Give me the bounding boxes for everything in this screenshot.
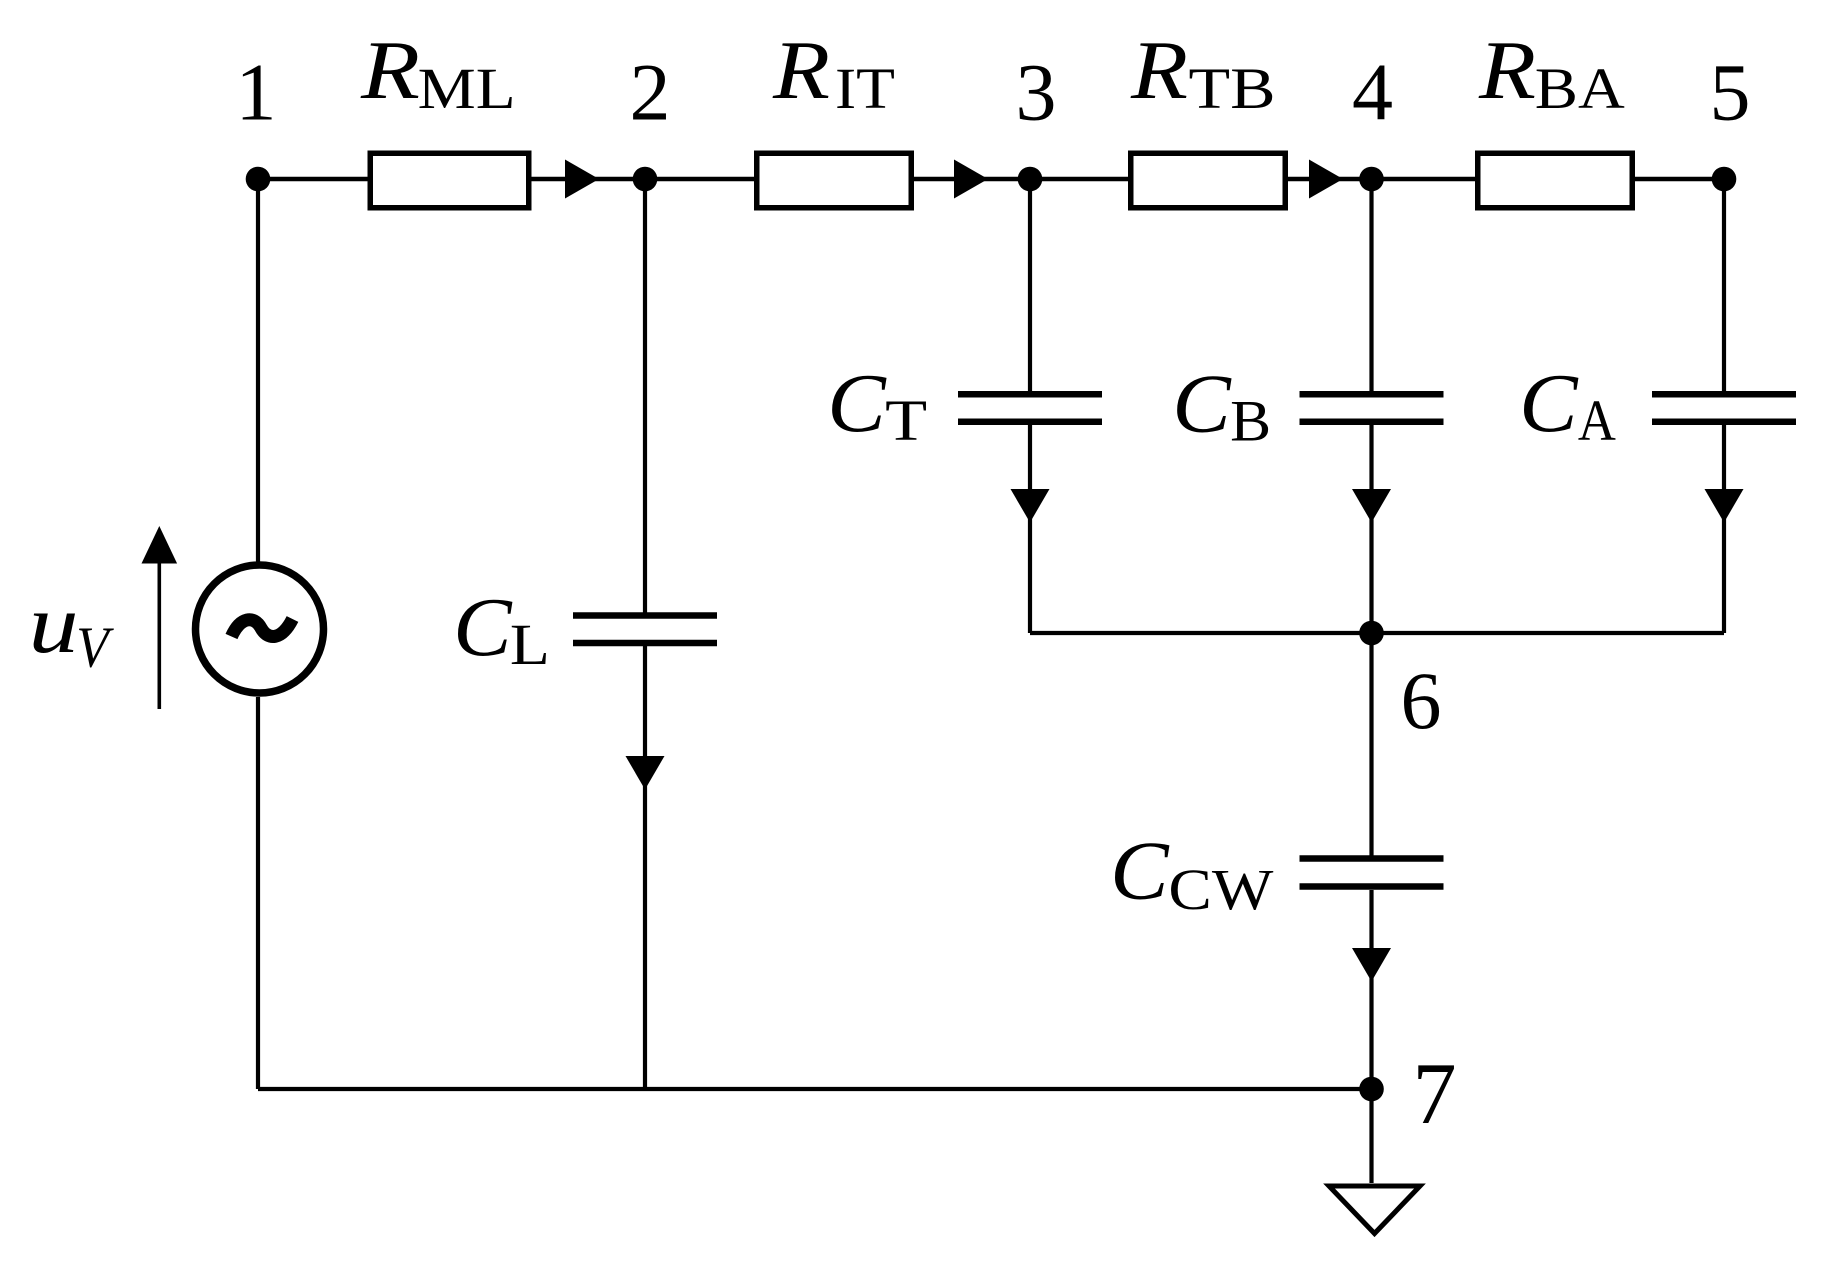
wire CCW to node7 (1369, 890, 1373, 1089)
capacitor C_CW bottom plate (1300, 883, 1444, 890)
svg-text:6: 6 (1401, 655, 1442, 746)
capacitor C_CW top plate (1300, 855, 1444, 862)
svg-text:1: 1 (236, 47, 277, 138)
resistor R_TB (1131, 153, 1286, 208)
node 7 (1359, 1077, 1384, 1102)
capacitor C_L top plate (573, 612, 717, 619)
wire node2 column above CL (643, 179, 647, 613)
node 1 (246, 167, 271, 192)
wire node5 column above CA (1722, 179, 1726, 391)
wire bottom rail (258, 1087, 1372, 1091)
wire node4 column below CB to bus (1369, 425, 1373, 634)
wire node2 column below CL to bottom rail (643, 646, 647, 1089)
wire node3 column below CT to bus (1028, 425, 1032, 634)
capacitor C_B top plate (1300, 391, 1444, 398)
ground (1329, 1186, 1420, 1234)
voltage source tilde (232, 619, 293, 637)
current arrow after R_TB (1309, 160, 1343, 199)
svg-text:3: 3 (1016, 47, 1057, 138)
wire node4 column above CB (1369, 179, 1373, 391)
wire left column node1 to source (256, 179, 260, 562)
current arrow after R_ML (565, 160, 599, 199)
capacitor C_T bottom plate (958, 419, 1102, 426)
u_V reference arrow (158, 560, 162, 709)
wire bus node6 horizontal (1030, 631, 1724, 635)
C_B current arrow (1352, 489, 1391, 523)
svg-text:5: 5 (1710, 47, 1751, 138)
capacitor C_L bottom plate (573, 640, 717, 647)
wire node7 to ground (1369, 1089, 1373, 1183)
node 4 (1359, 167, 1384, 192)
C_T current arrow (1011, 489, 1050, 523)
capacitor C_A bottom plate (1652, 419, 1796, 426)
C_CW current arrow (1352, 948, 1391, 982)
capacitor C_A top plate (1652, 391, 1796, 398)
voltage source u_V circle (196, 565, 324, 693)
svg-text:4: 4 (1352, 47, 1393, 138)
wire node6 to CCW (1369, 633, 1373, 856)
node 3 (1018, 167, 1043, 192)
wire source to bottom rail (256, 697, 260, 1089)
wire top rail nodes 1-5 (258, 177, 1724, 182)
node 6 (1359, 621, 1384, 646)
C_A current arrow (1705, 489, 1744, 523)
current arrow after R_IT (954, 160, 988, 199)
resistor R_BA (1478, 153, 1633, 208)
capacitor C_B bottom plate (1300, 419, 1444, 426)
svg-text:7: 7 (1413, 1046, 1457, 1143)
wire node3 column above CT (1028, 179, 1032, 391)
wire node5 column below CA to bus (1722, 425, 1726, 634)
svg-text:2: 2 (630, 47, 671, 138)
node 2 (633, 167, 658, 192)
resistor R_IT (757, 153, 912, 208)
C_L current arrow (626, 756, 665, 790)
resistor R_ML (370, 153, 529, 208)
capacitor C_T top plate (958, 391, 1102, 398)
node 5 (1712, 167, 1737, 192)
